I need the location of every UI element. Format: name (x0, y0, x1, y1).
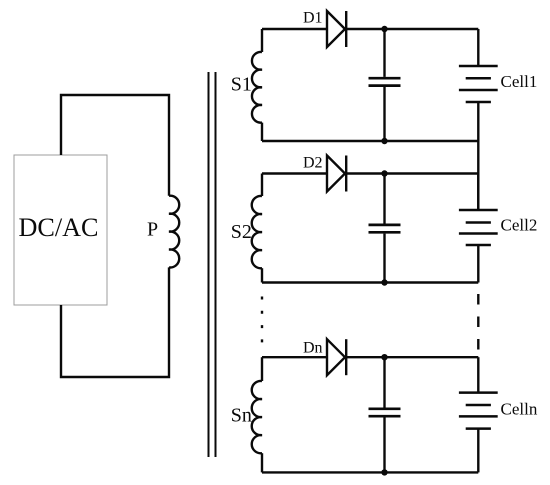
svg-text:DC/AC: DC/AC (18, 213, 98, 242)
svg-text:Cell2: Cell2 (501, 216, 538, 235)
svg-text:Celln: Celln (501, 400, 538, 419)
svg-text:D2: D2 (303, 155, 323, 172)
svg-text:S2: S2 (231, 221, 252, 243)
svg-text:S1: S1 (231, 74, 252, 96)
svg-text:Cell1: Cell1 (501, 72, 538, 91)
svg-text:Sn: Sn (231, 405, 252, 427)
svg-text:D1: D1 (303, 10, 323, 27)
svg-text:P: P (147, 219, 158, 241)
svg-text:Dn: Dn (303, 340, 323, 357)
